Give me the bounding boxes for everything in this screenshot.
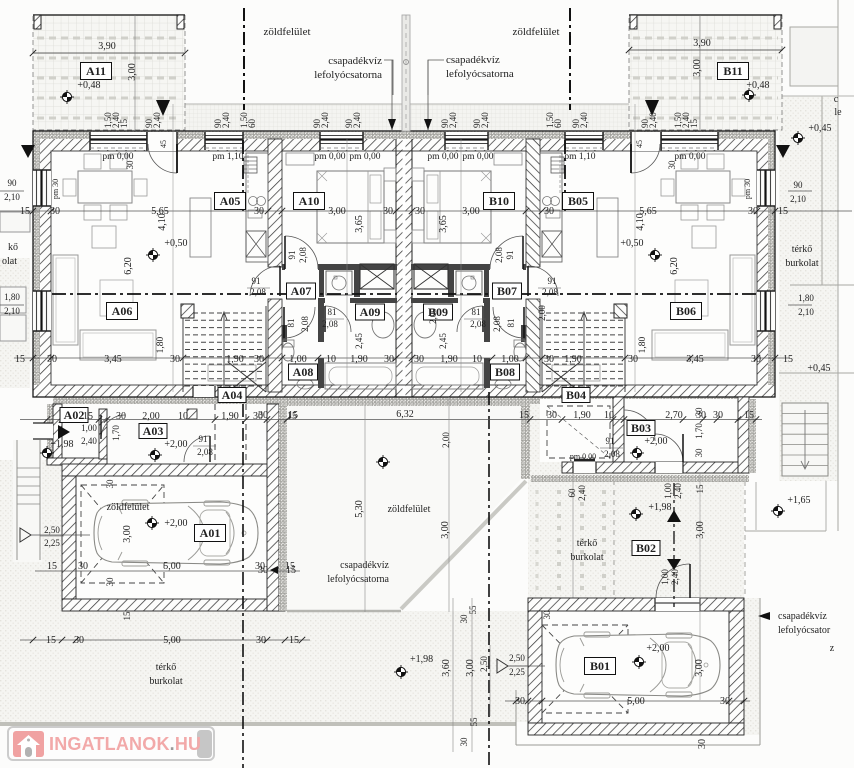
svg-text:1,00: 1,00	[81, 423, 97, 433]
svg-text:2,50: 2,50	[509, 653, 525, 663]
svg-text:pm 0,00: pm 0,00	[462, 152, 493, 162]
svg-text:térkő: térkő	[577, 538, 598, 549]
svg-text:+2,00: +2,00	[164, 518, 187, 529]
svg-text:30: 30	[415, 206, 425, 217]
svg-text:1,80: 1,80	[4, 292, 20, 302]
svg-text:lefolyócsatorna: lefolyócsatorna	[314, 69, 382, 81]
svg-text:1,00: 1,00	[501, 354, 519, 365]
svg-text:2,40: 2,40	[448, 112, 458, 128]
svg-text:2,08: 2,08	[470, 319, 486, 329]
svg-text:1,00: 1,00	[663, 483, 673, 499]
svg-text:A05: A05	[220, 194, 241, 208]
svg-text:5,30: 5,30	[354, 500, 365, 518]
svg-text:zöldfelület: zöldfelület	[107, 502, 150, 513]
svg-text:30: 30	[459, 737, 469, 747]
svg-text:30: 30	[542, 610, 552, 620]
svg-text:+2,00: +2,00	[164, 439, 187, 450]
svg-text:+1,98: +1,98	[50, 439, 73, 450]
svg-text:90: 90	[8, 178, 18, 188]
svg-text:5,00: 5,00	[627, 696, 645, 707]
svg-text:10: 10	[472, 354, 482, 365]
svg-text:81: 81	[472, 307, 481, 317]
svg-text:+1,65: +1,65	[787, 495, 810, 506]
svg-text:15: 15	[83, 411, 93, 422]
svg-text:30: 30	[125, 160, 135, 170]
svg-text:B11: B11	[723, 64, 742, 78]
svg-text:+2,00: +2,00	[646, 643, 669, 654]
svg-text:2,08: 2,08	[494, 247, 504, 263]
svg-text:2,40: 2,40	[81, 436, 97, 446]
svg-text:3,60: 3,60	[441, 659, 452, 677]
svg-text:burkolat: burkolat	[149, 676, 183, 687]
svg-text:2,00: 2,00	[142, 411, 160, 422]
svg-text:15: 15	[744, 410, 754, 421]
svg-text:1,90: 1,90	[564, 354, 582, 365]
svg-text:csapadékvíz: csapadékvíz	[328, 55, 382, 67]
svg-text:zöldfelület: zöldfelület	[263, 26, 310, 38]
svg-text:B02: B02	[636, 541, 656, 555]
svg-text:pm 0,00: pm 0,00	[102, 152, 133, 162]
svg-text:1,00: 1,00	[289, 354, 307, 365]
svg-text:2,40: 2,40	[221, 112, 231, 128]
svg-text:+0,50: +0,50	[620, 238, 643, 249]
svg-text:pm 0,00: pm 0,00	[427, 152, 458, 162]
svg-text:2,08: 2,08	[542, 287, 558, 297]
svg-text:3,00: 3,00	[440, 521, 451, 539]
svg-text:30: 30	[78, 561, 88, 572]
svg-text:30: 30	[258, 410, 268, 421]
svg-text:2,40: 2,40	[577, 485, 587, 501]
svg-text:pm 0,00: pm 0,00	[570, 452, 596, 461]
svg-text:2,08: 2,08	[300, 316, 310, 332]
svg-text:30: 30	[414, 354, 424, 365]
svg-text:térkő: térkő	[792, 244, 813, 255]
svg-text:91: 91	[287, 251, 297, 260]
svg-text:+0,48: +0,48	[77, 80, 100, 91]
svg-text:2,00: 2,00	[537, 305, 547, 321]
svg-text:30: 30	[667, 160, 677, 170]
svg-text:pm 0,00: pm 0,00	[314, 152, 345, 162]
svg-text:B04: B04	[566, 388, 586, 402]
svg-text:c: c	[834, 94, 839, 105]
svg-text:30: 30	[254, 354, 264, 365]
svg-text:3,00: 3,00	[465, 659, 476, 677]
svg-text:2,40: 2,40	[352, 112, 362, 128]
svg-text:6,20: 6,20	[123, 257, 134, 275]
svg-text:3,00: 3,00	[122, 525, 133, 543]
svg-text:30: 30	[696, 410, 706, 421]
svg-text:55: 55	[468, 605, 478, 615]
svg-text:91: 91	[606, 436, 615, 446]
svg-text:30: 30	[105, 577, 115, 587]
svg-text:1,70: 1,70	[694, 423, 704, 439]
svg-text:1,80: 1,80	[156, 336, 166, 353]
svg-text:A10: A10	[299, 194, 320, 208]
svg-text:2,08: 2,08	[492, 316, 502, 332]
svg-text:30: 30	[713, 410, 723, 421]
svg-text:91: 91	[548, 276, 557, 286]
svg-text:5,00: 5,00	[163, 561, 181, 572]
svg-text:2,10: 2,10	[4, 306, 20, 316]
svg-text:A06: A06	[112, 304, 133, 318]
svg-text:3,00: 3,00	[695, 521, 706, 539]
svg-text:81: 81	[286, 319, 296, 328]
svg-text:15: 15	[288, 410, 298, 421]
svg-text:15: 15	[122, 611, 132, 621]
svg-text:2,10: 2,10	[798, 307, 814, 317]
svg-text:10: 10	[604, 410, 614, 421]
svg-text:A04: A04	[222, 388, 243, 402]
svg-text:2,40: 2,40	[480, 112, 490, 128]
svg-text:30: 30	[254, 206, 264, 217]
svg-text:60: 60	[553, 119, 563, 129]
svg-text:2,40: 2,40	[152, 112, 162, 128]
svg-text:30: 30	[544, 354, 554, 365]
svg-text:+0,45: +0,45	[808, 123, 831, 134]
svg-text:30: 30	[50, 206, 60, 217]
svg-text:2,08: 2,08	[322, 319, 338, 329]
svg-text:1,80: 1,80	[638, 336, 648, 353]
svg-text:30: 30	[694, 448, 704, 458]
svg-text:81: 81	[328, 307, 337, 317]
svg-text:30: 30	[105, 479, 115, 489]
svg-text:A02: A02	[64, 408, 85, 422]
svg-text:lefolyócsatorna: lefolyócsatorna	[327, 574, 389, 585]
svg-text:A03: A03	[143, 424, 164, 438]
svg-text:30: 30	[628, 354, 638, 365]
svg-text:30: 30	[255, 561, 265, 572]
svg-text:60: 60	[567, 488, 577, 498]
svg-text:15: 15	[46, 635, 56, 646]
svg-text:90: 90	[794, 180, 804, 190]
svg-text:30: 30	[547, 410, 557, 421]
svg-text:lefolyócsator: lefolyócsator	[778, 625, 831, 636]
svg-text:2,40: 2,40	[320, 112, 330, 128]
svg-text:B05: B05	[568, 194, 588, 208]
svg-text:15: 15	[778, 206, 788, 217]
svg-text:3,00: 3,00	[127, 63, 138, 81]
svg-text:z: z	[830, 643, 835, 654]
svg-text:1,90: 1,90	[440, 354, 458, 365]
svg-text:burkolat: burkolat	[785, 258, 819, 269]
svg-text:91: 91	[199, 434, 208, 444]
svg-text:pm 0,00: pm 0,00	[674, 152, 705, 162]
svg-text:30: 30	[720, 696, 730, 707]
svg-text:csapadékvíz: csapadékvíz	[340, 560, 389, 571]
svg-text:30: 30	[47, 354, 57, 365]
svg-text:2,40: 2,40	[673, 483, 683, 499]
svg-text:91: 91	[505, 251, 515, 260]
svg-text:+1,98: +1,98	[410, 654, 433, 665]
svg-text:kő: kő	[8, 242, 18, 253]
svg-text:2,40: 2,40	[579, 112, 589, 128]
svg-text:15: 15	[15, 354, 25, 365]
svg-text:+0,45: +0,45	[807, 363, 830, 374]
svg-text:+0,50: +0,50	[164, 238, 187, 249]
svg-text:2,08: 2,08	[250, 287, 266, 297]
svg-text:3,65: 3,65	[354, 215, 365, 233]
svg-text:15: 15	[289, 635, 299, 646]
svg-text:B01: B01	[590, 659, 610, 673]
svg-text:A07: A07	[291, 284, 312, 298]
svg-text:4,10: 4,10	[635, 213, 646, 231]
svg-text:1,80: 1,80	[798, 293, 814, 303]
svg-text:2,70: 2,70	[665, 410, 683, 421]
svg-text:zöldfelület: zöldfelület	[512, 26, 559, 38]
svg-text:3,90: 3,90	[98, 41, 116, 52]
svg-text:15: 15	[20, 206, 30, 217]
svg-text:3,00: 3,00	[328, 206, 346, 217]
svg-text:3,90: 3,90	[693, 38, 711, 49]
svg-text:zöldfelület: zöldfelület	[388, 504, 431, 515]
svg-text:2,25: 2,25	[44, 538, 60, 548]
svg-text:2,45: 2,45	[438, 333, 448, 349]
svg-text:1,70: 1,70	[111, 425, 121, 441]
svg-text:B03: B03	[631, 421, 651, 435]
svg-text:1,90: 1,90	[221, 411, 239, 422]
svg-text:1,00: 1,00	[660, 569, 670, 585]
svg-text:lefolyócsatorna: lefolyócsatorna	[446, 68, 514, 80]
svg-text:pm 30: pm 30	[743, 179, 752, 199]
svg-text:2,08: 2,08	[604, 449, 620, 459]
svg-text:30: 30	[116, 411, 126, 422]
svg-text:2,40: 2,40	[670, 569, 680, 585]
svg-text:15: 15	[519, 410, 529, 421]
svg-text:pm 0,00: pm 0,00	[349, 152, 380, 162]
svg-text:3,00: 3,00	[692, 59, 703, 77]
svg-text:3,00: 3,00	[462, 206, 480, 217]
svg-text:+0,48: +0,48	[746, 80, 769, 91]
svg-text:2,50: 2,50	[479, 656, 489, 672]
svg-text:olat: olat	[2, 256, 17, 267]
svg-text:A09: A09	[360, 305, 381, 319]
svg-text:15: 15	[689, 119, 699, 129]
svg-text:15: 15	[119, 119, 129, 129]
svg-text:15: 15	[695, 484, 705, 494]
svg-text:55: 55	[469, 717, 479, 727]
svg-text:csapadékvíz: csapadékvíz	[778, 611, 827, 622]
svg-text:2,40: 2,40	[648, 112, 658, 128]
svg-text:30: 30	[384, 354, 394, 365]
svg-text:6,32: 6,32	[396, 409, 414, 420]
svg-text:15: 15	[783, 354, 793, 365]
svg-text:2,10: 2,10	[4, 192, 20, 202]
svg-text:3,00: 3,00	[694, 659, 705, 677]
svg-text:10: 10	[178, 411, 188, 422]
svg-text:A11: A11	[86, 64, 106, 78]
svg-text:pm 30: pm 30	[51, 179, 60, 199]
svg-text:2,00: 2,00	[441, 432, 451, 448]
svg-text:6,20: 6,20	[669, 257, 680, 275]
svg-text:B06: B06	[676, 304, 696, 318]
svg-text:30: 30	[748, 206, 758, 217]
svg-text:2,08: 2,08	[298, 247, 308, 263]
svg-text:30: 30	[751, 354, 761, 365]
svg-text:2,10: 2,10	[790, 194, 806, 204]
svg-text:1,90: 1,90	[350, 354, 368, 365]
svg-text:pm 1,10: pm 1,10	[212, 152, 243, 162]
svg-text:30: 30	[459, 614, 469, 624]
svg-text:burkolat: burkolat	[570, 552, 604, 563]
svg-text:le: le	[834, 107, 842, 118]
svg-text:15: 15	[47, 561, 57, 572]
svg-text:30: 30	[544, 206, 554, 217]
svg-text:+2,00: +2,00	[644, 436, 667, 447]
svg-text:3,45: 3,45	[686, 354, 704, 365]
svg-text:30: 30	[74, 635, 84, 646]
svg-text:A01: A01	[200, 526, 221, 540]
svg-text:30: 30	[170, 354, 180, 365]
svg-text:2,25: 2,25	[509, 667, 525, 677]
svg-text:térkő: térkő	[156, 662, 177, 673]
svg-text:2,08: 2,08	[197, 447, 213, 457]
svg-text:30: 30	[515, 696, 525, 707]
svg-text:3,65: 3,65	[438, 215, 449, 233]
svg-text:3,45: 3,45	[104, 354, 122, 365]
svg-text:1,90: 1,90	[226, 354, 244, 365]
svg-text:5,00: 5,00	[163, 635, 181, 646]
svg-text:4,10: 4,10	[157, 213, 168, 231]
svg-text:60: 60	[247, 119, 257, 129]
svg-text:30: 30	[697, 739, 708, 749]
svg-text:81: 81	[506, 319, 516, 328]
svg-text:91: 91	[252, 276, 261, 286]
svg-text:45: 45	[159, 140, 168, 148]
svg-text:INGATLANOK.HU: INGATLANOK.HU	[49, 734, 201, 754]
svg-text:A08: A08	[293, 365, 314, 379]
svg-text:B08: B08	[495, 365, 515, 379]
svg-text:2,50: 2,50	[44, 525, 60, 535]
svg-text:B10: B10	[489, 194, 509, 208]
svg-text:csapadékvíz: csapadékvíz	[446, 54, 500, 66]
svg-text:pm 1,10: pm 1,10	[564, 152, 595, 162]
svg-text:15: 15	[285, 561, 295, 572]
svg-text:B07: B07	[497, 284, 517, 298]
svg-text:30: 30	[256, 635, 266, 646]
svg-text:45: 45	[635, 140, 644, 148]
svg-text:10: 10	[326, 354, 336, 365]
svg-text:30: 30	[383, 206, 393, 217]
svg-text:1,90: 1,90	[573, 410, 591, 421]
svg-text:2,45: 2,45	[354, 333, 364, 349]
svg-text:+1,98: +1,98	[648, 502, 671, 513]
svg-text:2,00: 2,00	[428, 308, 438, 324]
